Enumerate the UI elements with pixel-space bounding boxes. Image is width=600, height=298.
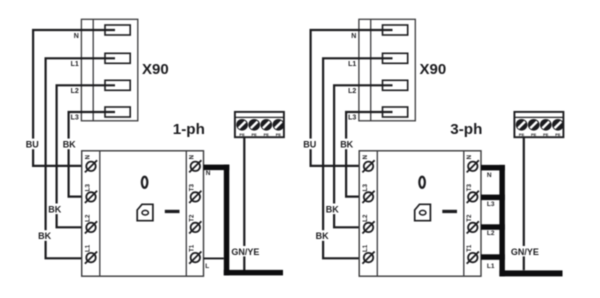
mains cable stub L2 (3-ph) — [481, 224, 505, 230]
svg-text:N: N — [466, 154, 473, 159]
svg-text:1-ph: 1-ph — [173, 121, 205, 138]
PE screw 3 (3-ph) — [540, 119, 552, 131]
svg-text:GN/YE: GN/YE — [511, 247, 539, 257]
svg-text:T3: T3 — [189, 184, 196, 192]
PE screw 2 (3-ph) — [528, 119, 540, 131]
switch dash mark (3-ph) — [442, 210, 457, 213]
svg-text:PE: PE — [543, 132, 549, 137]
svg-text:T1: T1 — [466, 244, 473, 252]
svg-text:BU: BU — [26, 140, 39, 150]
switch key icon (3-ph) — [415, 204, 431, 220]
screw terminal T3 right (3-ph) — [467, 191, 479, 203]
svg-text:X90: X90 — [420, 61, 447, 78]
svg-text:X90: X90 — [142, 61, 169, 78]
screw terminal L1 left (3-ph) — [362, 252, 374, 264]
svg-text:N: N — [74, 33, 79, 40]
svg-text:BK: BK — [316, 231, 329, 241]
mains cable bottom run (3-ph) — [499, 270, 562, 276]
screw terminal T3 right (1-ph) — [189, 191, 201, 203]
svg-text:BK: BK — [38, 231, 51, 241]
svg-text:L2: L2 — [487, 230, 495, 237]
svg-text:BU: BU — [303, 140, 316, 150]
svg-text:L3: L3 — [487, 201, 495, 208]
svg-text:T3: T3 — [466, 184, 473, 192]
PE terminal block (3-ph) body — [514, 112, 563, 137]
main switch body (3-ph) — [359, 151, 481, 276]
wire BK L2 (3-ph) — [334, 85, 392, 227]
svg-text:BK: BK — [63, 140, 76, 150]
svg-text:BK: BK — [340, 140, 353, 150]
svg-text:BK: BK — [326, 205, 339, 215]
label BK (L1 wire) (1-ph) — [37, 230, 52, 241]
svg-text:BK: BK — [48, 205, 61, 215]
screw terminal T2 right (1-ph) — [189, 221, 201, 233]
svg-text:L2: L2 — [84, 214, 91, 222]
svg-text:L1: L1 — [84, 244, 91, 252]
PE terminal block (1-ph) body — [235, 112, 284, 137]
PE screw 1 (3-ph) — [516, 119, 528, 131]
1-ph wiring diagram — [25, 19, 284, 276]
connector X90 (3-ph) body — [359, 19, 415, 121]
PE screw 2 (1-ph) — [248, 119, 260, 131]
mains cable stub N (3-ph) — [481, 165, 505, 171]
svg-text:N: N — [189, 154, 196, 159]
svg-text:N: N — [362, 154, 369, 159]
wire BU N (1-ph) — [33, 30, 115, 166]
svg-text:PE: PE — [239, 132, 245, 137]
screw terminal L3 left (1-ph) — [85, 191, 97, 203]
wire BK L1 (3-ph) — [323, 58, 392, 258]
label BK (L2 wire) (3-ph) — [325, 204, 340, 215]
X90 pin L3 (1-ph) — [105, 107, 130, 117]
label GN/YE (3-ph) — [509, 246, 539, 257]
svg-text:L2: L2 — [71, 88, 79, 95]
label BK (L2 wire) (1-ph) — [47, 204, 62, 215]
3-ph wiring diagram — [302, 19, 563, 276]
wire BK L3 (1-ph) — [69, 112, 115, 197]
mains cable trunk (1-ph) — [224, 165, 230, 276]
wire BK L3 (3-ph) — [346, 112, 392, 197]
svg-text:L1: L1 — [348, 61, 356, 68]
svg-text:PE: PE — [519, 132, 525, 137]
main switch body (1-ph) — [82, 151, 204, 276]
wire L to cable (1-ph) — [204, 258, 224, 260]
screw terminal N right (3-ph) — [467, 160, 479, 172]
X90 pin L1 (1-ph) — [105, 53, 130, 63]
screw terminal T1 right (1-ph) — [189, 252, 201, 264]
svg-text:L1: L1 — [487, 263, 495, 270]
svg-text:PE: PE — [276, 132, 282, 137]
X90 pin N (1-ph) — [105, 25, 130, 35]
wire BK L2 (1-ph) — [57, 85, 115, 227]
svg-text:L2: L2 — [348, 88, 356, 95]
wire GN/YE PE (1-ph) — [243, 137, 245, 270]
wire GN/YE PE (3-ph) — [523, 137, 525, 270]
X90 pin L1 (3-ph) — [383, 53, 408, 63]
svg-text:T2: T2 — [189, 214, 196, 222]
screw terminal N right (1-ph) — [189, 160, 201, 172]
svg-text:L3: L3 — [362, 184, 369, 192]
X90 pin L2 (1-ph) — [105, 80, 130, 90]
svg-text:T1: T1 — [189, 244, 196, 252]
label BK (L3 wire) (1-ph) — [62, 139, 77, 150]
PE screw 1 (1-ph) — [236, 119, 248, 131]
switch position mark 0 (3-ph) — [419, 177, 425, 188]
label BU (3-ph) — [302, 139, 317, 150]
label BK (L3 wire) (3-ph) — [339, 139, 354, 150]
svg-text:T2: T2 — [466, 214, 473, 222]
svg-text:PE: PE — [555, 132, 561, 137]
svg-text:PE: PE — [531, 132, 537, 137]
svg-text:GN/YE: GN/YE — [231, 247, 259, 257]
switch position mark 0 (1-ph) — [142, 177, 148, 188]
screw terminal T2 right (3-ph) — [467, 221, 479, 233]
screw terminal T1 right (3-ph) — [467, 252, 479, 264]
mains cable stub N (1-ph) — [204, 165, 230, 171]
switch dash mark (1-ph) — [165, 210, 180, 213]
connector X90 (1-ph) body — [81, 19, 137, 121]
svg-text:N: N — [351, 33, 356, 40]
mains cable trunk (3-ph) — [499, 165, 505, 277]
svg-text:3-ph: 3-ph — [450, 121, 482, 138]
mains cable stub L3 (3-ph) — [481, 195, 505, 201]
screw terminal N left (1-ph) — [85, 160, 97, 172]
screw terminal L2 left (3-ph) — [362, 221, 374, 233]
wire BK L1 (1-ph) — [46, 58, 115, 258]
svg-text:L3: L3 — [84, 184, 91, 192]
PE screw 3 (1-ph) — [260, 119, 272, 131]
svg-text:L3: L3 — [348, 115, 356, 122]
screw terminal N left (3-ph) — [362, 160, 374, 172]
label GN/YE (1-ph) — [230, 246, 260, 257]
screw terminal L2 left (1-ph) — [85, 221, 97, 233]
svg-text:N: N — [84, 154, 91, 159]
mains cable bottom run (1-ph) — [224, 270, 283, 276]
svg-text:L2: L2 — [362, 214, 369, 222]
switch key icon (1-ph) — [137, 204, 153, 220]
svg-text:L: L — [205, 263, 209, 270]
svg-text:PE: PE — [264, 132, 270, 137]
svg-text:L3: L3 — [71, 115, 79, 122]
svg-text:L1: L1 — [362, 244, 369, 252]
mains cable stub L1 (3-ph) — [481, 254, 505, 259]
screw terminal L1 left (1-ph) — [85, 252, 97, 264]
svg-text:PE: PE — [252, 132, 258, 137]
label BU (1-ph) — [25, 139, 40, 150]
X90 pin N (3-ph) — [383, 25, 408, 35]
svg-text:N: N — [487, 172, 492, 179]
PE screw 4 (3-ph) — [552, 119, 564, 131]
svg-text:N: N — [206, 170, 211, 177]
X90 pin L3 (3-ph) — [383, 107, 408, 117]
screw terminal L3 left (3-ph) — [362, 191, 374, 203]
svg-text:L1: L1 — [71, 61, 79, 68]
label BK (L1 wire) (3-ph) — [315, 230, 330, 241]
PE screw 4 (1-ph) — [273, 119, 285, 131]
X90 pin L2 (3-ph) — [383, 80, 408, 90]
wire BU N (3-ph) — [311, 30, 393, 166]
